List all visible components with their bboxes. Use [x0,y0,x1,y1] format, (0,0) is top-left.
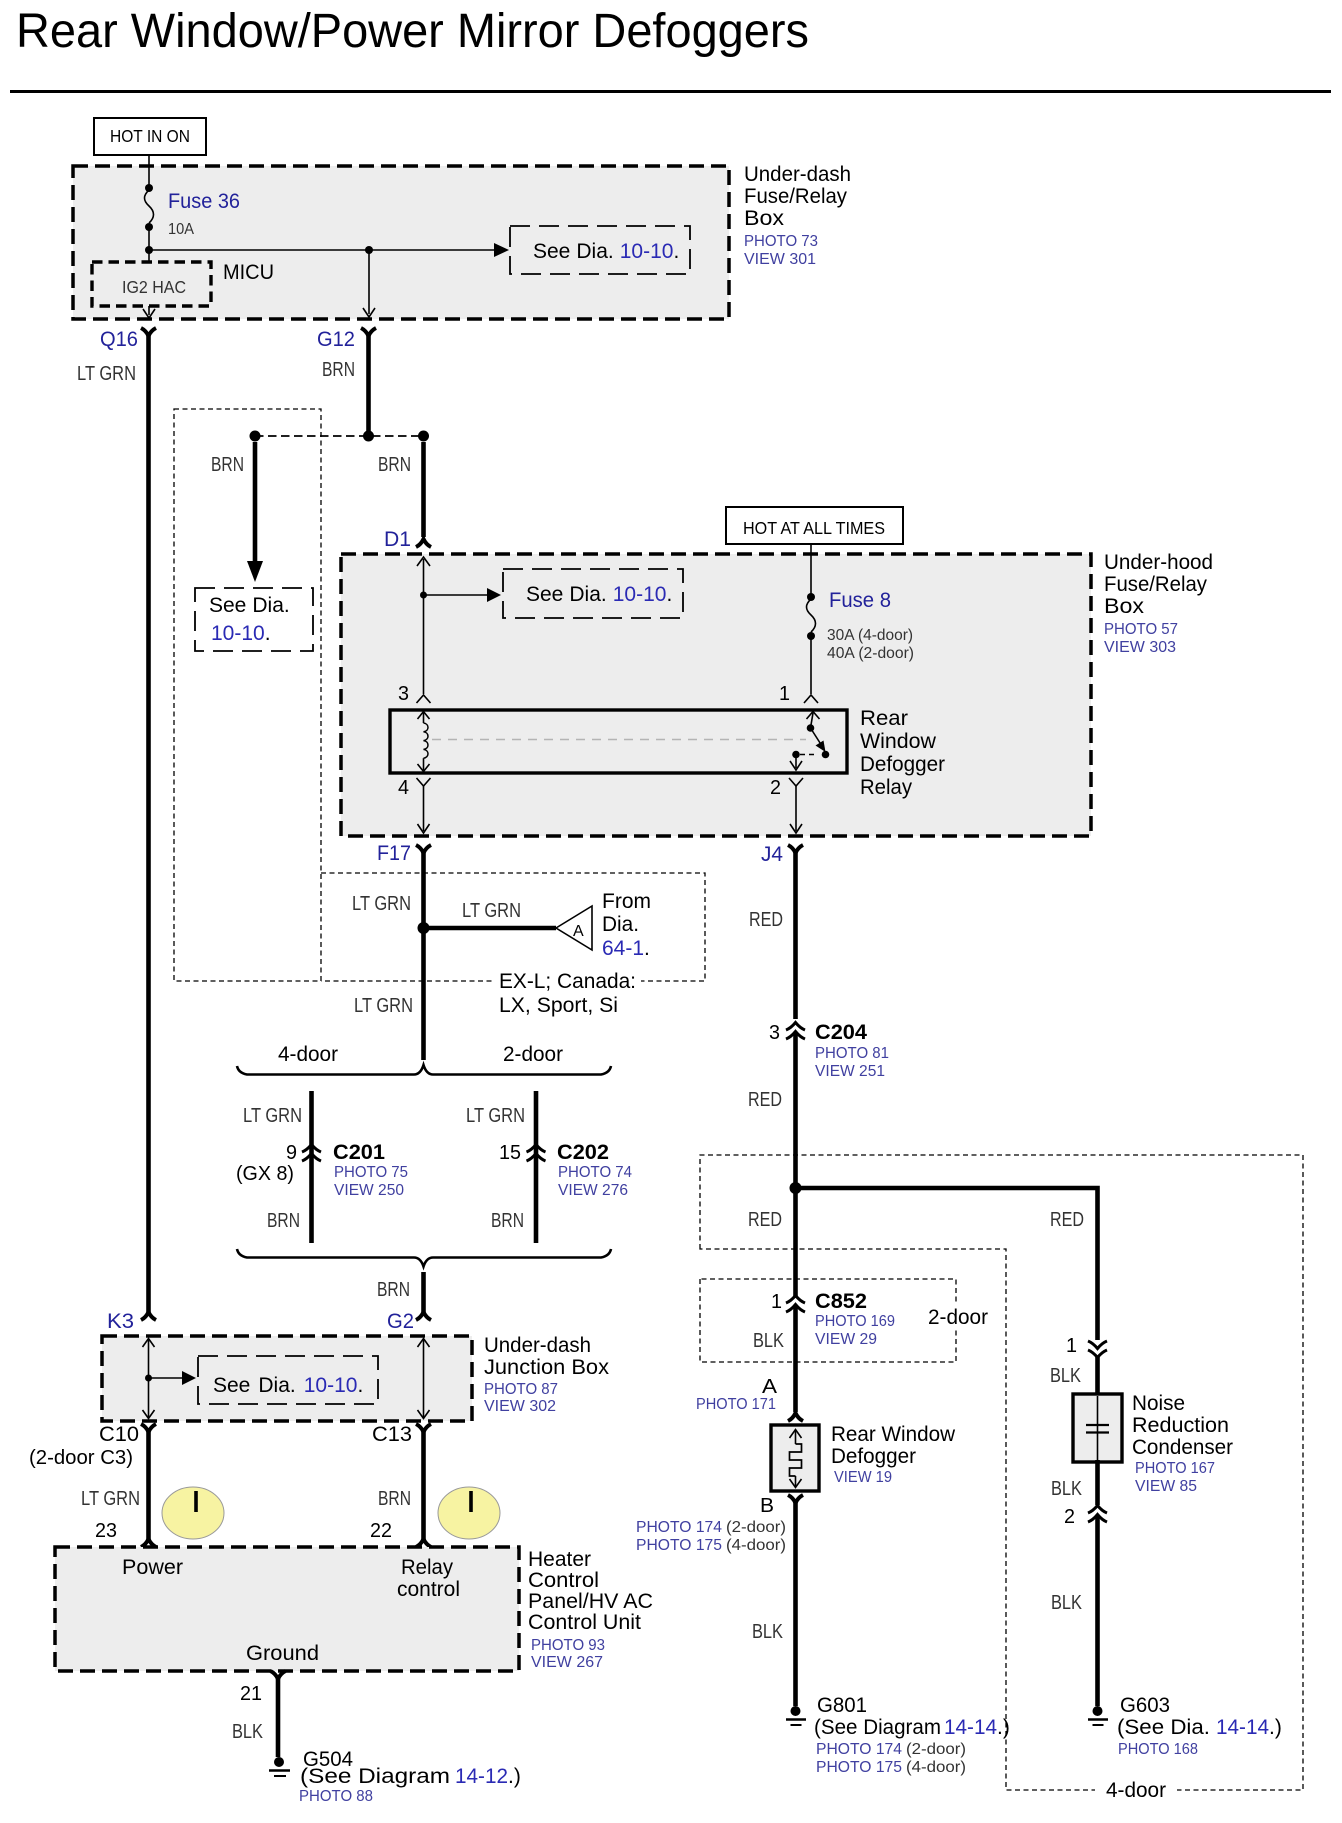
svg-text:B: B [760,1495,774,1517]
svg-text:BRN: BRN [378,1488,411,1510]
svg-text:LT GRN: LT GRN [81,1488,140,1510]
node under fuse 36 [145,246,153,254]
svg-text:14-14: 14-14 [944,1716,997,1739]
arrow to See Dia (junction box) [149,1371,197,1385]
svg-text:BLK: BLK [752,1621,784,1643]
connector A [696,1376,803,1421]
node F17 branch [418,922,430,934]
svg-text:SeeDia.10-10.: SeeDia.10-10. [526,583,672,606]
triangle A (from dia 64-1) [556,906,592,950]
wire fuse to junction [148,227,150,262]
svg-text:Heater: Heater [528,1548,591,1571]
svg-text:4-door: 4-door [278,1043,338,1066]
svg-text:A: A [762,1376,778,1398]
svg-text:Fuse/Relay: Fuse/Relay [744,185,847,208]
wire F17 down (LT GRN) [421,851,426,1060]
node RED splice [790,1182,802,1194]
svg-text:control: control [397,1578,460,1601]
connector J4 [761,843,803,866]
svg-text:A: A [573,923,584,940]
pin 22 connector [416,1539,431,1547]
svg-text:Control Unit: Control Unit [528,1611,641,1634]
svg-text:BLK: BLK [1051,1478,1083,1500]
svg-text:23: 23 [95,1520,117,1542]
svg-text:Q16: Q16 [100,328,138,351]
svg-text:C202: C202 [557,1141,609,1164]
svg-text:F17: F17 [377,842,411,865]
wire pin 4 to box edge [418,786,430,833]
pin 3 marker [398,683,431,705]
svg-text:14-12: 14-12 [455,1765,508,1788]
svg-text:C204: C204 [815,1021,867,1044]
ground G603 [1088,1694,1282,1758]
svg-text:Under-dash: Under-dash [484,1334,591,1357]
svg-text:J4: J4 [761,843,783,866]
svg-text:PHOTO 88: PHOTO 88 [299,1788,373,1805]
svg-text:SeeDia.10-10.: SeeDia.10-10. [533,240,679,263]
svg-text:(2-door): (2-door) [726,1519,786,1536]
svg-text:Fuse/Relay: Fuse/Relay [1104,573,1207,596]
svg-text:21: 21 [240,1683,262,1705]
under-dash junction box [102,1336,472,1421]
connector G12 [317,328,376,351]
svg-text:2-door: 2-door [503,1043,563,1066]
wire G12 down (BRN) [366,334,371,436]
svg-text:MICU: MICU [223,261,274,284]
arrow to See Dia (under-hood) [424,588,502,602]
svg-text:LT GRN: LT GRN [352,893,411,915]
svg-text:2: 2 [1064,1506,1075,1528]
svg-text:PHOTO 175: PHOTO 175 [816,1759,902,1776]
svg-text:Junction Box: Junction Box [484,1356,610,1379]
svg-text:VIEW 251: VIEW 251 [815,1063,885,1080]
svg-text:PHOTO 171: PHOTO 171 [696,1396,776,1413]
See Dia. 10-10. box (under-hood) [503,569,683,618]
svg-text:(See Diagram: (See Diagram [814,1716,941,1739]
svg-text:RED: RED [748,1089,782,1111]
svg-text:Rear Window/Power Mirror Defog: Rear Window/Power Mirror Defoggers [16,5,809,58]
svg-text:VIEW 19: VIEW 19 [834,1469,892,1486]
wire 2-door branch [534,1091,539,1243]
label 4-door (box edge) [1095,1778,1177,1802]
svg-text:3: 3 [398,683,409,705]
svg-text:Defogger: Defogger [860,753,945,776]
svg-text:30A (4-door): 30A (4-door) [827,627,913,644]
svg-text:(See Dia.: (See Dia. [1117,1716,1210,1739]
heater control panel box [55,1547,519,1671]
wire BRN to D1 [378,442,424,537]
svg-text:10A: 10A [168,221,194,238]
wire condenser to pin 2 (BLK) [1051,1460,1098,1505]
connector pin 2 (condenser) [1064,1506,1107,1529]
title rule [10,90,1331,93]
label: Noise Reduction Condenser [1132,1392,1233,1495]
connector C202 pin 15 [499,1141,632,1199]
pin 21 connector [240,1671,286,1705]
svg-text:VIEW 267: VIEW 267 [531,1654,603,1671]
wire B to G801 (BLK) [752,1501,796,1706]
label: From Dia. 64-1. [602,890,651,960]
svg-text:(2-door C3): (2-door C3) [29,1447,133,1469]
svg-text:3: 3 [769,1022,780,1044]
svg-text:BLK: BLK [1050,1365,1082,1387]
svg-text:D1: D1 [384,528,411,551]
svg-text:(2-door): (2-door) [906,1741,966,1758]
wire to condenser [1095,1356,1100,1396]
ground G801 [786,1694,1010,1776]
node G12 branch [365,246,373,254]
svg-text:BRN: BRN [267,1210,300,1232]
svg-text:22: 22 [370,1520,392,1542]
svg-text:PHOTO 75: PHOTO 75 [334,1164,408,1181]
svg-text:(GX 8): (GX 8) [236,1163,294,1185]
wire C852 to defogger (BLK) [793,1306,798,1412]
svg-text:LT GRN: LT GRN [354,995,413,1017]
svg-text:(See Diagram: (See Diagram [300,1765,450,1788]
svg-text:2-door: 2-door [928,1306,988,1329]
label: Heater Control Panel/HV AC Control Unit [528,1548,653,1671]
svg-text:PHOTO 169: PHOTO 169 [815,1313,895,1330]
svg-text:VIEW 301: VIEW 301 [744,251,816,268]
svg-text:4-door: 4-door [1106,1779,1166,1802]
HOT AT ALL TIMES box [726,507,903,544]
under-dash fuse/relay box [73,166,729,319]
svg-text:G603: G603 [1120,1694,1170,1717]
svg-text:PHOTO 73: PHOTO 73 [744,233,818,250]
svg-text:4: 4 [398,777,409,799]
wire junction to See Dia arrow [149,249,496,251]
svg-text:Window: Window [860,730,937,753]
connector G2 [387,1310,431,1333]
svg-text:15: 15 [499,1142,521,1164]
svg-text:1: 1 [771,1291,782,1313]
svg-text:RED: RED [1050,1209,1084,1231]
wire pin 2 to box edge [790,786,802,833]
connector K3 [107,1310,156,1333]
wire C10 to heater (LT GRN) [81,1430,149,1542]
svg-text:LT GRN: LT GRN [466,1105,525,1127]
label: Under-dash Fuse/Relay Box [744,163,851,268]
connector F17 [377,842,431,865]
pin 23 connector [141,1539,156,1547]
wire C13 to heater (BRN) [370,1430,424,1542]
wire G12 branch drop [363,250,375,317]
svg-text:9: 9 [286,1142,297,1164]
svg-text:LT GRN: LT GRN [243,1105,302,1127]
svg-text:Ground: Ground [246,1642,319,1665]
svg-text:LX, Sport, Si: LX, Sport, Si [499,994,618,1017]
wire merge to G2 (BRN) [377,1272,424,1312]
D1 internal wire with up arrow [417,557,430,694]
node BRN splice left [250,431,261,442]
pin 4 marker [398,777,431,799]
svg-text:.): .) [508,1765,521,1788]
svg-text:BLK: BLK [753,1330,785,1352]
svg-text:VIEW 85: VIEW 85 [1135,1478,1197,1495]
relay coil (pin 3-4) [418,712,430,772]
svg-text:From: From [602,890,651,913]
svg-text:.): .) [1269,1716,1282,1739]
svg-text:LT GRN: LT GRN [77,363,136,385]
svg-text:Noise: Noise [1132,1392,1185,1415]
svg-text:Power: Power [122,1556,183,1579]
svg-text:C13: C13 [372,1423,412,1446]
svg-text:Panel/HV AC: Panel/HV AC [528,1590,653,1613]
svg-text:Condenser: Condenser [1132,1436,1233,1459]
svg-text:C201: C201 [333,1141,385,1164]
svg-text:40A (2-door): 40A (2-door) [827,645,914,662]
svg-text:VIEW 303: VIEW 303 [1104,639,1176,656]
dashed splice link wire [255,435,424,437]
svg-text:Under-hood: Under-hood [1104,551,1213,574]
svg-text:Relay: Relay [401,1556,453,1579]
variant dotted box (wide, EX-L Canada) [321,873,705,981]
connector Q16 [100,328,156,351]
node junction box [145,1375,152,1382]
variant dotted box (tall) [174,409,321,981]
pin 2 marker [770,777,803,799]
variant dashed box (defogger circuit) [700,1155,1303,1790]
svg-text:64-1.: 64-1. [602,937,650,960]
svg-text:PHOTO 168: PHOTO 168 [1118,1741,1198,1758]
wire splice to condenser branch (RED) [796,1188,1098,1340]
ground G504 [269,1748,521,1805]
wire to triangle A [426,900,556,928]
svg-text:PHOTO 57: PHOTO 57 [1104,621,1178,638]
wire fuse 8 to relay pin 1 [810,636,812,694]
svg-text:Rear: Rear [860,707,908,730]
wire hot to fuse 8 [810,544,812,597]
svg-text:PHOTO 167: PHOTO 167 [1135,1460,1215,1477]
svg-text:Fuse 36: Fuse 36 [168,190,240,213]
svg-text:PHOTO 87: PHOTO 87 [484,1381,558,1398]
option symbol right [438,1487,500,1539]
label: Under-hood Fuse/Relay Box [1104,551,1213,656]
svg-text:VIEW 29: VIEW 29 [815,1331,877,1348]
svg-text:C10: C10 [99,1423,139,1446]
wire 21 to G504 (BLK) [232,1677,278,1757]
svg-text:HOT AT ALL TIMES: HOT AT ALL TIMES [743,518,885,538]
wire J4 to C204 (RED) [749,851,796,1019]
svg-text:BRN: BRN [377,1279,410,1301]
under-hood fuse/relay box [341,554,1091,836]
svg-text:PHOTO 174: PHOTO 174 [636,1519,722,1536]
svg-text:G12: G12 [317,328,355,351]
svg-text:LT GRN: LT GRN [462,900,521,922]
label: Under-dash Junction Box [484,1334,610,1415]
junction box G2-C13 internal wire [418,1339,430,1419]
See Dia. 10-10. box (under-dash) [510,226,690,274]
See Dia. 10-10. box (variant) [195,588,313,651]
svg-text:Control: Control [528,1569,599,1592]
svg-text:1: 1 [779,683,790,705]
connector C13 [372,1423,431,1446]
svg-text:K3: K3 [107,1310,134,1333]
brace split 4-door/2-door [237,1043,611,1075]
svg-text:PHOTO 175: PHOTO 175 [636,1537,722,1554]
svg-text:IG2 HAC: IG2 HAC [122,277,186,297]
fuse 36 [145,184,241,238]
node BRN splice right [418,431,429,442]
svg-text:Box: Box [1104,595,1145,618]
node BRN splice center [363,431,374,442]
See Dia. 10-10. box (junction box) [198,1356,378,1404]
wire pin 2 to G603 (BLK) [1051,1516,1098,1706]
svg-text:Relay: Relay [860,776,912,799]
svg-text:BRN: BRN [322,359,355,381]
svg-text:Defogger: Defogger [831,1445,916,1468]
svg-text:BLK: BLK [1051,1592,1083,1614]
svg-text:G2: G2 [387,1310,414,1333]
wire Q16 to K3 (LT GRN) [146,334,151,1312]
connector C852 pin 1 [753,1290,895,1352]
variant dashed box 2-door [700,1279,956,1362]
svg-text:2: 2 [770,777,781,799]
svg-text:Reduction: Reduction [1132,1414,1229,1437]
svg-text:Box: Box [744,207,785,230]
svg-text:BRN: BRN [491,1210,524,1232]
svg-text:PHOTO 74: PHOTO 74 [558,1164,632,1181]
wire 4-door branch [309,1091,314,1243]
brace merge [237,1249,611,1267]
connector D1 [384,528,431,551]
svg-text:BRN: BRN [211,454,244,476]
svg-text:C852: C852 [815,1290,867,1313]
svg-text:BLK: BLK [232,1721,264,1743]
wire BRN arrow to See Dia (left) [211,442,263,582]
relay internal dashed link [432,739,806,741]
rear window defogger [771,1425,819,1491]
svg-text:RED: RED [748,1209,782,1231]
wire C204 to splice (RED) [748,1032,796,1298]
HOT IN ON box [94,118,206,155]
svg-text:10-10.: 10-10. [211,622,271,645]
svg-text:VIEW 250: VIEW 250 [334,1182,404,1199]
MICU IG2 HAC box [92,262,211,306]
noise reduction condenser [1073,1394,1122,1462]
wire from HOT IN ON to fuse 36 [148,155,150,188]
svg-text:Dia.: Dia. [602,913,639,936]
label 2-door (box edge) [922,1303,994,1329]
svg-text:EX-L; Canada:: EX-L; Canada: [499,970,636,993]
relay box (rear window defogger relay) [390,710,847,773]
connector C204 pin 3 [769,1021,889,1080]
svg-text:Under-dash: Under-dash [744,163,851,186]
svg-text:BRN: BRN [378,454,411,476]
connector C10 [29,1423,156,1469]
connector B [636,1495,803,1554]
connector C201 pin 9 [236,1141,408,1199]
fuse 8 [807,589,915,662]
svg-text:HOT IN ON: HOT IN ON [110,126,190,146]
svg-text:PHOTO 174: PHOTO 174 [816,1741,902,1758]
option symbol left [162,1487,224,1539]
label: Power / Relay control / Ground [122,1556,460,1665]
svg-text:Fuse 8: Fuse 8 [829,589,891,612]
pin 1 marker [779,683,818,705]
junction box K3-C10 internal wire [143,1339,155,1419]
svg-text:VIEW 302: VIEW 302 [484,1398,556,1415]
svg-text:(4-door): (4-door) [906,1759,966,1776]
svg-text:1: 1 [1066,1335,1077,1357]
svg-text:Rear Window: Rear Window [831,1423,956,1446]
label: Rear Window Defogger Relay [860,707,945,799]
svg-text:(4-door): (4-door) [726,1537,786,1554]
svg-text:SeeDia.10-10.: SeeDia.10-10. [213,1374,363,1397]
svg-text:PHOTO 81: PHOTO 81 [815,1045,889,1062]
label: EX-L; Canada: LX, Sport, Si [494,969,641,1017]
connector condenser pin 1 [1050,1335,1107,1387]
svg-text:.): .) [997,1716,1010,1739]
svg-text:RED: RED [749,909,783,931]
svg-text:G801: G801 [817,1694,867,1717]
node D1 internal [420,592,427,599]
svg-text:VIEW 276: VIEW 276 [558,1182,628,1199]
svg-text:PHOTO 93: PHOTO 93 [531,1637,605,1654]
label: Rear Window Defogger [831,1423,956,1486]
relay switch (pin 1-2) [790,712,829,771]
svg-text:14-14: 14-14 [1216,1716,1269,1739]
arrow IG2 HAC to box edge [143,306,155,318]
svg-text:SeeDia.: SeeDia. [209,594,290,617]
